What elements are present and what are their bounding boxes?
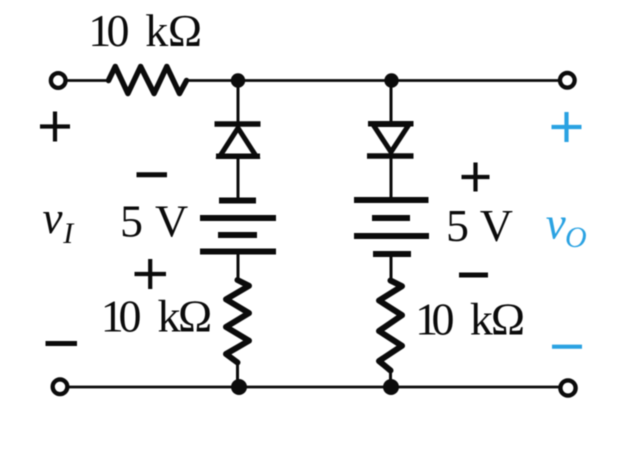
wire right branch top [390, 81, 393, 124]
terminal output top [560, 73, 575, 88]
bottom wire [69, 386, 559, 389]
top wire left segment [67, 79, 110, 82]
wire diode D2 to battery B2 [390, 156, 393, 198]
minus sign input bottom [46, 341, 78, 346]
top wire right segment [186, 79, 559, 82]
node A top-left junction [231, 73, 245, 87]
minus above 5V left [137, 172, 168, 177]
wire battery B2 to resistor R3 [390, 254, 393, 279]
diode D1 triangle (apex up) [220, 128, 256, 156]
plus sign input top [40, 112, 70, 142]
svg-text:10kΩ: 10kΩ [88, 5, 202, 56]
svg-text:I: I [62, 217, 75, 250]
resistor R3 10k vertical right [379, 281, 402, 371]
wire left branch top [237, 81, 240, 123]
wire R2 to bottom [236, 361, 239, 387]
diode D2 anode bar [368, 121, 414, 127]
svg-text:V: V [480, 200, 513, 251]
svg-text:10kΩ: 10kΩ [101, 291, 212, 342]
terminal input top [51, 73, 66, 88]
node C bottom-left junction [231, 379, 247, 395]
node D bottom-right junction [383, 379, 399, 395]
svg-text:V: V [155, 196, 188, 247]
plus above 5V right [462, 163, 490, 192]
svg-text:O: O [565, 221, 587, 254]
resistor R1 10k horizontal [109, 67, 187, 94]
diode D1 (cathode bar) [215, 121, 261, 127]
resistor R2 10k vertical left [226, 280, 249, 363]
svg-text:5: 5 [120, 196, 143, 247]
diode D2 cathode bar [367, 153, 414, 159]
minus sign output bottom (cyan) [552, 345, 582, 349]
terminal output bottom [560, 380, 575, 395]
svg-text:5: 5 [446, 200, 469, 251]
svg-text:v: v [43, 193, 63, 243]
diode D1 anode bar [216, 154, 260, 160]
plus sign output top (cyan) [552, 112, 582, 142]
node B top-right junction [384, 73, 398, 87]
battery B1 plates (minus top) [219, 198, 256, 204]
svg-text:10kΩ: 10kΩ [415, 294, 525, 345]
plus below 5V left [135, 259, 167, 289]
svg-text:v: v [546, 199, 566, 249]
wire battery B1 to resistor R2 [237, 252, 240, 280]
wire diode to battery B1 [237, 156, 240, 198]
minus below 5V right [459, 273, 488, 278]
terminal input bottom [53, 379, 68, 394]
battery B2 plates (plus top) [354, 197, 429, 203]
diode D2 triangle (apex down) [373, 125, 409, 153]
wire R3 to bottom [389, 369, 392, 387]
